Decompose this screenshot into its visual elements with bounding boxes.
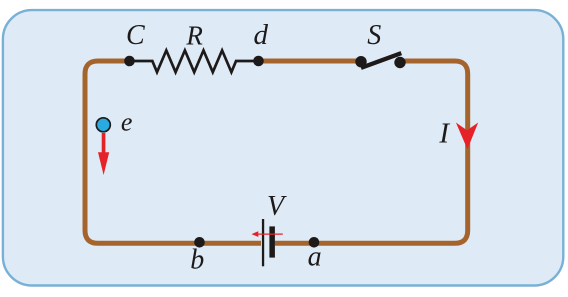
current I red arrowhead <box>456 123 478 150</box>
wire bottom-right section: battery right plate to right side up to switch right node <box>275 61 468 243</box>
electron velocity red arrow <box>98 133 109 175</box>
svg-text:C: C <box>126 20 145 51</box>
node C <box>124 56 135 67</box>
svg-text:I: I <box>438 118 450 150</box>
svg-text:V: V <box>267 191 287 222</box>
resistor R zigzag <box>130 50 259 72</box>
svg-text:d: d <box>253 19 268 51</box>
electron e <box>96 118 110 132</box>
switch left contact <box>355 56 366 67</box>
node d <box>253 56 264 67</box>
svg-text:S: S <box>367 20 381 51</box>
wire top middle section: d to switch left node <box>259 59 362 64</box>
switch S arm <box>361 53 401 68</box>
svg-text:e: e <box>121 108 133 137</box>
battery V long thin plate <box>262 219 264 266</box>
wire top-left section: C to left side, down, bottom to battery left plate <box>85 61 261 243</box>
node b <box>194 237 205 248</box>
battery current direction small red arrow <box>252 231 283 237</box>
svg-text:R: R <box>185 21 203 51</box>
battery V short thick plate <box>269 226 275 257</box>
svg-text:b: b <box>190 245 204 276</box>
svg-text:a: a <box>308 242 322 273</box>
node a <box>309 237 320 248</box>
switch right contact <box>394 57 405 68</box>
